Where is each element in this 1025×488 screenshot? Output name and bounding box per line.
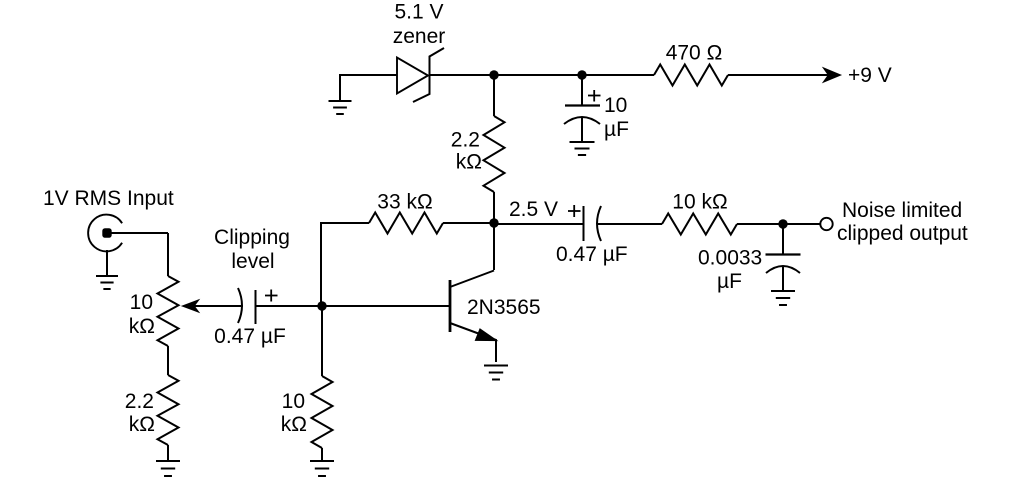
svg-text:kΩ: kΩ [456,151,482,174]
svg-text:µF: µF [604,118,629,141]
svg-text:0.47 µF: 0.47 µF [556,243,628,266]
svg-text:Clipping: Clipping [214,226,290,249]
svg-text:0.0033: 0.0033 [698,247,762,270]
svg-text:clipped output: clipped output [837,222,968,245]
svg-text:10: 10 [130,291,153,314]
svg-text:33 kΩ: 33 kΩ [377,191,432,214]
svg-text:kΩ: kΩ [281,413,307,436]
svg-text:+9 V: +9 V [848,64,892,87]
svg-text:5.1 V: 5.1 V [394,1,443,24]
svg-text:zener: zener [393,25,446,48]
svg-text:10: 10 [282,390,305,413]
svg-text:2.5 V: 2.5 V [509,198,558,221]
svg-text:0.47 µF: 0.47 µF [214,325,286,348]
svg-text:470 Ω: 470 Ω [666,42,723,65]
svg-text:10 kΩ: 10 kΩ [672,191,727,214]
svg-text:kΩ: kΩ [129,315,155,338]
svg-text:2.2: 2.2 [125,390,154,413]
svg-text:2.2: 2.2 [451,129,480,152]
svg-text:level: level [231,250,274,273]
svg-text:Noise limited: Noise limited [842,199,962,222]
svg-text:kΩ: kΩ [129,413,155,436]
svg-text:2N3565: 2N3565 [467,296,541,319]
svg-text:1V RMS Input: 1V RMS Input [43,187,174,210]
svg-text:µF: µF [717,270,742,293]
svg-text:10: 10 [604,94,627,117]
